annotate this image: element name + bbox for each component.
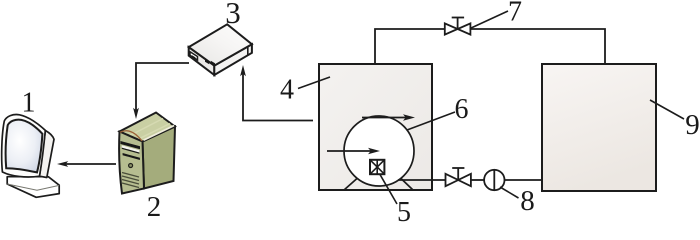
wire: box3 to computer tower (down arrow): [136, 63, 189, 112]
pointer line 4: [298, 77, 330, 89]
tower cd slot red arc: [120, 131, 142, 141]
pipe: bottom line from fan to valve to pump to box9: [398, 179, 445, 181]
wire: tower to monitor (left arrow): [64, 163, 116, 165]
monitor base: [7, 177, 59, 198]
pointer line 6: [407, 112, 455, 130]
bottom valve: [446, 168, 471, 186]
arrowhead left at monitor: [57, 161, 68, 167]
monitor bezel front: [2, 115, 46, 178]
computer tower 2: [119, 113, 175, 194]
daq port small 1: [205, 59, 209, 64]
svg-text:6: 6: [455, 94, 469, 125]
tower top-right highlight: [144, 126, 175, 141]
power button: [129, 164, 133, 168]
fan legs: [344, 179, 357, 191]
svg-text:7: 7: [508, 0, 522, 28]
valve 7: [445, 18, 471, 35]
daq port small 2: [211, 61, 215, 66]
box 9 (environment chamber): [542, 64, 656, 191]
vents: [122, 173, 139, 188]
pointer line 5: [380, 175, 397, 205]
pointer line 8: [500, 187, 519, 198]
arrowhead up into box3: [240, 65, 246, 76]
svg-text:5: 5: [397, 197, 411, 228]
daq port big: [190, 52, 198, 60]
svg-text:8: 8: [520, 185, 535, 217]
fan circle 6: [344, 116, 414, 186]
daq right notch: [247, 47, 249, 55]
DAQ box 3: [189, 24, 252, 75]
svg-text:2: 2: [147, 191, 162, 223]
arrow inside circle top: [362, 117, 407, 119]
svg-text:3: 3: [225, 0, 241, 30]
drive bay 2: [123, 153, 140, 160]
wire: box4 to box3 (up arrow): [243, 72, 313, 121]
tower front face: [119, 132, 144, 194]
monitor 1: [2, 115, 60, 198]
arrowhead down onto tower: [133, 108, 139, 119]
drive bay 1: [121, 141, 141, 149]
daq top face: [189, 24, 252, 65]
pump / flowmeter 8: [484, 170, 504, 190]
pointer line 9: [650, 100, 684, 119]
daq left-front face: [189, 47, 215, 75]
tower top face: [120, 113, 176, 142]
pipe: top line box4 to valve7 to box9: [375, 29, 605, 64]
sensor square 5: [370, 160, 384, 174]
daq right-front face: [214, 44, 252, 75]
tower side face: [143, 127, 176, 189]
svg-text:1: 1: [22, 88, 36, 119]
monitor screen: [6, 120, 43, 173]
svg-text:4: 4: [280, 75, 294, 106]
monitor side slab: [40, 131, 55, 178]
pointer line 7: [470, 11, 508, 29]
arrow into circle center: [327, 150, 372, 152]
svg-text:9: 9: [685, 109, 700, 141]
tower top hatch: [128, 119, 170, 140]
box 4 (test chamber): [319, 64, 432, 190]
